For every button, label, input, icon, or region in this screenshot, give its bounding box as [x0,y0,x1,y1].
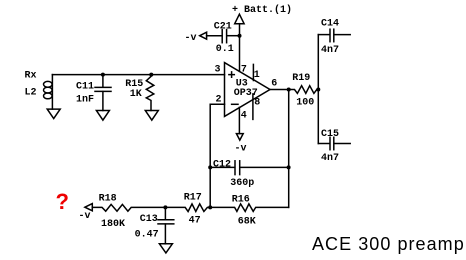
svg-text:?: ? [56,189,69,214]
svg-text:R19: R19 [292,73,310,84]
node: R15 top junction [149,73,153,77]
svg-text:7: 7 [241,65,247,76]
capacitor C12 [210,161,288,175]
resistor R15 [146,75,154,111]
svg-text:C11: C11 [76,82,94,93]
svg-text:1: 1 [254,70,260,81]
resistor R19 [289,86,319,94]
pin 1 stub [252,64,254,80]
svg-text:4: 4 [241,111,247,122]
node: battery / C21 junction [238,34,242,38]
node: R19 right junction [316,88,320,92]
svg-text:-v: -v [235,144,247,155]
capacitor C13 [158,207,174,243]
resistor R16 [210,204,288,212]
svg-text:R18: R18 [99,193,117,204]
svg-text:C21: C21 [214,21,232,32]
node: feedback bottom-left junction [208,205,212,209]
capacitor C14 [318,29,350,42]
svg-text:C14: C14 [321,18,339,29]
ground (R15) [145,111,158,121]
svg-text:6: 6 [271,79,277,90]
wire: pin 2 to feedback [210,104,224,207]
svg-text:1K: 1K [130,89,142,100]
resistor R18 [92,204,165,211]
resistor R17 [165,204,210,212]
svg-text:+ Batt.(1): + Batt.(1) [232,4,292,16]
svg-text:ACE 300 preamp: ACE 300 preamp [312,234,465,254]
svg-text:-v: -v [185,33,197,44]
pin 4 stub [238,107,240,133]
pin 8 stub [252,94,254,120]
op-amp U3 [225,63,271,117]
svg-text:4n7: 4n7 [321,45,339,56]
svg-text:0.47: 0.47 [135,229,159,240]
node: C12 right junction [287,165,291,169]
svg-text:R17: R17 [184,193,202,204]
power arrow (-v at C21) [200,32,207,39]
svg-text:8: 8 [254,98,260,109]
svg-text:47: 47 [189,216,201,227]
svg-text:C15: C15 [321,129,339,140]
svg-text:100: 100 [296,98,314,109]
svg-text:4n7: 4n7 [321,153,339,164]
capacitor C15 [318,137,350,149]
capacitor C21 [207,30,240,43]
power arrow (-v at pin 4) [236,134,243,141]
inductor L2 [44,75,53,110]
pin 7 stub + wire to battery [239,24,241,72]
svg-text:L2: L2 [25,88,37,99]
wire: output down to feedback [288,90,290,208]
wire: right bus (C14 to C15) [317,35,319,144]
svg-text:-v: -v [79,211,91,222]
svg-text:3: 3 [215,65,221,76]
svg-text:1nF: 1nF [76,95,94,106]
power arrow (+ Batt) [235,14,244,24]
node: C12 left junction [208,165,212,169]
capacitor C11 [95,75,111,111]
node: C11 top junction [101,73,105,77]
ground (C13) [159,244,172,253]
node: C13 top junction [163,205,167,209]
svg-text:R16: R16 [232,195,250,206]
svg-text:68K: 68K [238,217,256,228]
wire: output to junction [270,89,289,91]
svg-text:180K: 180K [101,219,125,230]
svg-text:C13: C13 [140,214,158,225]
power arrow (-v at R18) [85,204,92,211]
node: output junction [287,88,291,92]
svg-text:360p: 360p [230,178,254,189]
svg-text:C12: C12 [213,159,231,170]
ground (C11) [96,111,109,121]
wire: input net (pin 3 net) [52,74,224,76]
ground (L2) [47,109,60,119]
svg-text:Rx: Rx [25,71,37,82]
svg-text:0.1: 0.1 [216,44,234,55]
